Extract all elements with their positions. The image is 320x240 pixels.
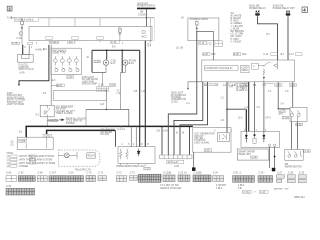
- diamond junction on wire b: [274, 155, 276, 158]
- diode D1 in relay box: [137, 149, 140, 156]
- wire: drop from main run at x162: [161, 127, 163, 155]
- wire: drop from main run at x189.5: [189, 127, 191, 155]
- svg-text:(3): (3): [7, 163, 10, 165]
- J/B stem from power tap: [145, 9, 147, 27]
- constant voltage unit box: [202, 60, 295, 82]
- svg-text:2-1 2-4: 2-1 2-4: [117, 129, 125, 131]
- junction dot: [278, 108, 279, 109]
- wire: CV out 2 staircase: [174, 82, 203, 155]
- diode DA: [245, 132, 248, 143]
- svg-text:7-A: 7-A: [268, 90, 272, 93]
- wire: lamp2 stub: [122, 65, 125, 72]
- boxed label C-20: [304, 150, 310, 153]
- wire: main feed bus from battery: [12, 17, 155, 20]
- relay plug P1 symbol: [255, 11, 260, 16]
- wire: lamp chain lower: [120, 73, 122, 109]
- connector pinout C-52 (dense): [18, 176, 35, 182]
- svg-text:C-71: C-71: [98, 172, 104, 174]
- svg-text:GR: GRAY: GR: GRAY: [231, 35, 243, 38]
- connector pinout C-23b (dense): [193, 175, 211, 182]
- svg-text:C-22 +A: C-22 +A: [178, 171, 187, 174]
- acc generator dome cut box: [193, 128, 231, 153]
- connector pinout C-28 (pair): [287, 175, 295, 183]
- connector pinout C-21: [163, 175, 175, 181]
- wire: loop to tailgate box: [105, 90, 107, 109]
- wire: lamp1 cell bottom: [92, 71, 106, 73]
- wire: branch to wiper unit: [227, 109, 246, 131]
- connector pinout C-16 (dense): [68, 176, 83, 182]
- wire: dome relay to rr wiper motor 2: [297, 122, 299, 150]
- svg-text:TAILGATE LT H: TAILGATE LT H: [75, 168, 92, 171]
- svg-text:C-19: C-19: [251, 157, 257, 159]
- junction dots on main run: [161, 126, 163, 128]
- shielded joint square 2: [272, 168, 276, 172]
- key reminder switch KR1: [40, 105, 54, 117]
- note legend line 1: [10, 155, 17, 157]
- dome relay contacts: [290, 114, 293, 117]
- column switch wire: [114, 130, 117, 146]
- note legend line 3: [10, 162, 17, 164]
- svg-text:L-V: L-V: [245, 107, 249, 109]
- svg-text:C-71A: C-71A: [243, 191, 250, 194]
- connector pinout C-27 (pair): [276, 175, 284, 183]
- left legend text column: [231, 13, 245, 44]
- wire: tailgate box out 1: [130, 126, 132, 146]
- dashed link: [270, 62, 273, 64]
- connector pinout C-29 (pair): [298, 175, 306, 183]
- connector pinout C-72: [116, 176, 126, 182]
- wire: bus left drop: [91, 50, 93, 72]
- resistor R2 in relay box: [126, 149, 129, 160]
- rear wiper control box: [241, 132, 280, 148]
- svg-text:C-08: C-08: [6, 172, 12, 174]
- harness loop rectangle: [53, 90, 106, 100]
- svg-text:POWER: POWER: [66, 123, 75, 125]
- relay square DB: [254, 134, 256, 136]
- stub to C label: [51, 85, 60, 87]
- coil symbol 1: [25, 138, 28, 149]
- wire from plug P2: [287, 16, 289, 60]
- svg-text:C-76: C-76: [45, 136, 51, 138]
- label C-76 on hook: [43, 134, 52, 137]
- svg-text:C-81: C-81: [110, 85, 116, 87]
- connector pinout C-71: [98, 176, 106, 181]
- wire: lamp1 drop (thick): [106, 50, 108, 60]
- svg-text:POWER RELAY RR?: POWER RELAY RR?: [273, 7, 296, 10]
- svg-text:C-17: C-17: [289, 54, 295, 56]
- pin ticks on tailgate box: [106, 126, 120, 128]
- svg-text:FUSE②: FUSE②: [50, 41, 58, 44]
- svg-text:E-06: E-06: [203, 54, 209, 56]
- svg-text:(/KEY+ILANK): (/KEY+ILANK): [194, 141, 209, 144]
- svg-text:C-15: C-15: [260, 192, 266, 194]
- resistor R1 in relay box: [119, 149, 122, 160]
- wire: CV out to wiper box a (thick): [245, 110, 247, 132]
- wire: ground run from J/B: [19, 45, 49, 85]
- junction dot top-right: [106, 90, 108, 92]
- wire: CV out to wiper box d: [263, 82, 265, 132]
- svg-text:LIGHT SYSTEM: LIGHT SYSTEM: [7, 104, 24, 106]
- svg-text:BLA: BLA: [242, 53, 247, 56]
- svg-text:B-R: B-R: [211, 54, 215, 56]
- wire: lamp1 chain to C-83 grid: [102, 72, 104, 86]
- junction block J/B box: [29, 26, 152, 40]
- svg-text:C-23: C-23: [144, 169, 150, 171]
- svg-text:C-58: C-58: [38, 172, 44, 174]
- svg-text:E-07: E-07: [111, 63, 117, 65]
- svg-text:C-26 ↑: C-26 ↑: [258, 171, 265, 174]
- wire: dome relay to rr wiper motor 1: [291, 122, 293, 150]
- svg-text:C-73: C-73: [57, 85, 63, 87]
- svg-text:V: VIOLET: V: VIOLET: [231, 41, 243, 43]
- svg-text:(2) 1-B: (2) 1-B: [176, 47, 184, 49]
- connector pinout C-73: [129, 176, 141, 181]
- svg-text:SENS: SENS: [241, 70, 248, 72]
- label C-19: [251, 156, 258, 159]
- resistor box RB: [253, 138, 256, 143]
- pin labels above CV box: [202, 53, 210, 56]
- wire from FL2: [197, 32, 214, 61]
- wire: ignition switch feed (dark): [22, 45, 24, 55]
- label C-18: [282, 116, 289, 119]
- svg-text:(2-V: (2-V: [238, 118, 243, 120]
- sheet marker 3: [7, 6, 12, 11]
- label C-81: [109, 84, 115, 87]
- svg-text:10A: 10A: [69, 41, 74, 44]
- wire: wiper box to shield sq 2 a: [269, 147, 271, 168]
- junction dot at box top: [106, 109, 108, 111]
- svg-text:A-09: A-09: [20, 72, 26, 75]
- svg-text:FUSIBLE LINK②: FUSIBLE LINK②: [15, 18, 33, 21]
- hook below CV box: [264, 82, 274, 84]
- svg-text:2-B: 2-B: [156, 130, 160, 132]
- svg-text:(4): (4): [7, 166, 10, 168]
- svg-text:2-B: 2-B: [134, 91, 138, 93]
- wiper caption box: [237, 149, 268, 160]
- coil symbol 2: [45, 138, 48, 149]
- svg-text:POWER SUPPLY: POWER SUPPLY: [137, 6, 156, 8]
- svg-text:SWITCH (IG1): SWITCH (IG1): [18, 69, 33, 71]
- svg-text:E-08: E-08: [234, 54, 240, 56]
- svg-text:B: BLACK: B: BLACK: [231, 17, 242, 20]
- small relay box in tailgate: [87, 153, 95, 158]
- svg-text:SOME TYPE: SOME TYPE: [52, 53, 66, 55]
- CV box bottom pin labels row: [205, 85, 296, 87]
- svg-text:C-25 ↑2: C-25 ↑2: [233, 171, 242, 174]
- relay unit small box in CV: [252, 63, 259, 69]
- boxed label under FL2 left output: [199, 42, 207, 45]
- svg-text:SA?A-LA?: SA?A-LA?: [168, 161, 180, 164]
- motor contacts: [288, 155, 291, 158]
- connector circle inside J/B: [142, 30, 145, 33]
- svg-text:C-12: C-12: [206, 44, 212, 46]
- svg-text:C-21(B): C-21(B): [163, 172, 171, 174]
- connector pinout C-24: [213, 176, 224, 182]
- svg-text:C-15 F: C-15 F: [49, 172, 57, 174]
- svg-text:WIPER MOTOR: WIPER MOTOR: [285, 166, 302, 168]
- power tap thick bar: [137, 7, 156, 9]
- wire: theft-alarm main run (thick): [26, 126, 193, 137]
- svg-text:ALARM SYS: ALARM SYS: [236, 89, 250, 92]
- svg-text:C-16: C-16: [69, 172, 75, 174]
- svg-text:C-28: C-28: [288, 172, 294, 174]
- fusible link 1 label box: [14, 18, 38, 21]
- connector pinout C-74 (wide dense): [138, 174, 161, 182]
- svg-text:WIPER REAR PANEL UNIT: WIPER REAR PANEL UNIT: [116, 165, 145, 168]
- resistor leg in CV box: [263, 68, 265, 76]
- svg-text:C-87: C-87: [205, 150, 211, 152]
- svg-text:C-80: C-80: [67, 77, 73, 79]
- svg-text:CONSTANT VOLTAGE IN: CONSTANT VOLTAGE IN: [205, 67, 232, 70]
- tailgate harness box: [86, 109, 129, 126]
- wire: CV out to wiper box c: [254, 82, 256, 132]
- connector pinout C-70: [86, 176, 95, 182]
- wire: dome lamp bus (thick): [92, 49, 140, 51]
- wire: CV out to dome relay (elbow): [278, 82, 290, 109]
- rear wiper motor box: [285, 149, 303, 160]
- wire: bus right drop (thick, long): [139, 50, 141, 146]
- svg-text:9 B: 9 B: [238, 188, 242, 190]
- svg-text:C-18: C-18: [283, 118, 289, 120]
- wire: CV out to dome relay top: [292, 82, 294, 108]
- dome light assy box: [17, 137, 53, 149]
- connector pinout C-58: [37, 176, 47, 182]
- junction block dashed right edge: [150, 18, 152, 41]
- wire: CV out 3 staircase: [180, 82, 208, 155]
- connector C-12 label + block: [215, 41, 223, 47]
- contact circles bottom: [268, 144, 271, 147]
- fusible link F3 symbol: [195, 21, 198, 32]
- wire: dome feed run (thick): [47, 130, 115, 137]
- tailgate wiring dashed outline: [58, 150, 100, 166]
- label E-15: [296, 123, 303, 126]
- svg-text:1 BLK: 1 BLK: [216, 188, 223, 190]
- relay plug P2 symbol: [285, 11, 290, 16]
- ignition switch connector housing: [17, 55, 33, 63]
- arrow to rear callout: [61, 119, 64, 122]
- connector pinout C-26 (dense): [258, 176, 273, 183]
- svg-text:E-16: E-16: [129, 63, 135, 65]
- connector pinout C-08: [6, 176, 16, 182]
- wire: ignition switch feed 2: [28, 45, 30, 55]
- svg-text:RELAY: RELAY: [88, 155, 96, 158]
- svg-text:C-27: C-27: [277, 172, 283, 174]
- diode DC: [263, 132, 266, 143]
- svg-text:A-31: A-31: [7, 17, 13, 20]
- svg-text:C-78: C-78: [12, 43, 18, 45]
- connector pinout C-30 (big dense): [6, 188, 35, 195]
- label C-80 under hatchback box: [67, 76, 74, 79]
- svg-text:Y-A: Y-A: [256, 106, 260, 109]
- svg-text:C-82(4): C-82(4): [138, 15, 146, 17]
- svg-text:J/B: J/B: [140, 11, 144, 13]
- svg-text:THEFT ALARM): THEFT ALARM): [56, 112, 73, 115]
- svg-text:C-14: C-14: [263, 54, 269, 56]
- mini connector strip: [160, 155, 193, 159]
- svg-text:(C-60): (C-60): [171, 101, 178, 103]
- svg-text:L-B: L-B: [141, 91, 145, 93]
- hatchback relay box: [51, 48, 81, 74]
- svg-text:A??: A??: [279, 113, 284, 116]
- note legend line 2: [10, 158, 17, 160]
- wire: tailgate box out 2: [135, 126, 137, 146]
- connector pinout C-15 (dense): [49, 176, 67, 182]
- connector C-06 circle symbol: [19, 32, 23, 36]
- svg-text:C-70: C-70: [86, 172, 92, 174]
- note legend line 4: [10, 165, 17, 167]
- constant voltage caption box: [204, 66, 238, 71]
- wire: key reminder feed: [50, 45, 52, 106]
- bus to J/B drops: [49, 18, 100, 27]
- fuse F2 inside J/B: [119, 26, 122, 40]
- svg-text:C-13: C-13: [199, 43, 205, 45]
- wire below connector: [21, 35, 23, 44]
- boxed labels inside J/B bottom: [46, 37, 104, 40]
- svg-text:(2): (2): [7, 160, 10, 162]
- svg-text:: W/OUT THEFT-ALARM SYSTEM: : W/OUT THEFT-ALARM SYSTEM: [18, 155, 54, 158]
- svg-text:CF-4: CF-4: [265, 118, 271, 120]
- svg-text:C-52: C-52: [18, 172, 24, 174]
- inner relay box: [218, 133, 230, 142]
- svg-text:B-Y: B-Y: [266, 34, 270, 36]
- relay contact circles row: [54, 56, 79, 66]
- svg-text:+ C-75: + C-75: [50, 120, 58, 122]
- svg-text:CHECK LAMP: CHECK LAMP: [82, 83, 98, 86]
- dome relay box: [290, 108, 307, 122]
- J/B pin stub ticks: [49, 41, 100, 43]
- wire: CV out to wiper box b (thick): [248, 82, 250, 132]
- lamp circle in tailgate: [64, 153, 69, 158]
- connector pinout C-22: [178, 175, 190, 181]
- switch symbol in CV box: [258, 63, 269, 66]
- wire: FL2 output down left side: [168, 32, 197, 156]
- svg-text:C-73: C-73: [130, 172, 136, 174]
- relay contact circles row 2: [55, 67, 80, 71]
- wire: lamp1 stub: [105, 65, 107, 72]
- svg-text:: WITH THEFT ALARM SYSTEM: : WITH THEFT ALARM SYSTEM: [18, 159, 52, 162]
- wire: lamp chain into tailgate box: [119, 104, 121, 109]
- svg-text:C-24: C-24: [213, 172, 219, 174]
- svg-text:C-20: C-20: [304, 151, 310, 153]
- svg-text:(1): (1): [7, 156, 10, 158]
- dome lamp L1: [103, 60, 108, 65]
- svg-text:FUSIBLE LINK②: FUSIBLE LINK②: [190, 18, 208, 21]
- wire: long vertical bus v2: [144, 41, 146, 147]
- svg-text:2-V: 2-V: [280, 103, 284, 105]
- junction dot relay feed: [226, 108, 228, 110]
- wire from plug P1: [258, 16, 278, 60]
- svg-text:C-29: C-29: [299, 172, 305, 174]
- svg-text:C-06: C-06: [17, 38, 23, 40]
- sheet marker 4: [302, 7, 307, 12]
- shielded joint square 1: [192, 167, 196, 171]
- wire b: [274, 147, 276, 168]
- svg-text:LIGHT: LIGHT: [18, 142, 25, 144]
- wire: lamp2 thick drop: [121, 50, 123, 72]
- boxed label left of lamp1: [94, 60, 100, 63]
- fusible link F1 symbol: [21, 18, 24, 32]
- connector pinout C-25 (wide dense): [233, 176, 255, 183]
- svg-text:C-30: C-30: [6, 186, 12, 188]
- transistor arrow symbol: [274, 64, 278, 67]
- wiper relay box: [118, 147, 155, 164]
- svg-text:C-23(B): C-23(B): [193, 172, 201, 174]
- svg-text:INT SW): INT SW): [100, 134, 109, 136]
- wire below key reminder: [47, 117, 59, 127]
- svg-text:C-84: C-84: [174, 166, 180, 168]
- svg-text:MB91-012: MB91-012: [294, 197, 305, 199]
- svg-text:C-79: C-79: [111, 42, 117, 44]
- svg-text:: WITH KEYLESS ENTRY SYSTEM: : WITH KEYLESS ENTRY SYSTEM: [18, 163, 55, 165]
- svg-text:POWER RELAY: POWER RELAY: [249, 7, 266, 10]
- strip labels: [167, 160, 184, 163]
- svg-text:(1): (1): [11, 144, 14, 146]
- wire: branch from CV left to sub light note: [188, 82, 202, 88]
- arrowhead to body ground callout: [18, 84, 20, 86]
- svg-text:C-05: C-05: [95, 61, 101, 63]
- svg-text:1-R: 1-R: [229, 87, 233, 89]
- svg-text:: POWER: : POWER: [18, 166, 28, 168]
- svg-text:C-83: C-83: [98, 84, 104, 86]
- svg-text:REAR UNIT: REAR UNIT: [239, 153, 252, 156]
- svg-text:(3): (3): [11, 142, 14, 144]
- inner unit box: [241, 66, 249, 73]
- wire from acc box to shield sq: [193, 152, 195, 167]
- svg-text:C-72: C-72: [117, 172, 123, 174]
- dome lamp L2: [123, 60, 128, 65]
- inner pin grid of tailgate box: [97, 86, 109, 91]
- boxed label C-23 after caption: [144, 167, 150, 170]
- bottom-right ref labels: [243, 190, 252, 193]
- pin label row under J/B: [12, 41, 120, 45]
- fusible link 2 box: [188, 18, 219, 41]
- svg-text:REAR B FT02L/SET: REAR B FT02L/SET: [160, 187, 182, 190]
- svg-text:B????? - ???: B????? - ???: [274, 189, 289, 191]
- wire: relay feed from CV: [226, 82, 228, 133]
- relay box bottom pins: [121, 163, 146, 165]
- svg-text:WC3: WC3: [141, 37, 147, 39]
